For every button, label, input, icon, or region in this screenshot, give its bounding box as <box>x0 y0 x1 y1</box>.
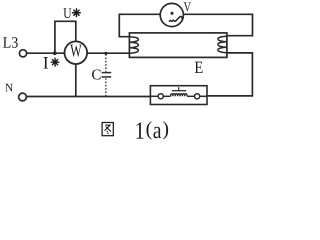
lamp left filament coil <box>129 37 138 54</box>
wire top loop right from voltmeter <box>183 14 252 35</box>
ballast left terminal circle <box>158 94 163 99</box>
wattmeter W letter <box>70 45 82 57</box>
capacitor C (dashed branch) <box>102 54 112 95</box>
asterisk of U* <box>73 9 81 17</box>
wire coil to right circle <box>187 95 194 97</box>
lamp tube E rectangle <box>129 33 227 58</box>
wire U* voltage tap loop <box>55 21 76 53</box>
wire L3 main horizontal <box>27 52 130 54</box>
terminal N <box>19 93 27 101</box>
label V <box>184 2 191 11</box>
label L3 <box>3 37 18 48</box>
label U <box>63 8 71 18</box>
ballast right terminal circle <box>195 94 200 99</box>
label I <box>43 57 48 68</box>
ballast core line <box>172 90 186 92</box>
wire circle to coil <box>163 95 170 97</box>
terminal L3 <box>19 50 26 57</box>
caption glyph 图 <box>102 123 113 136</box>
asterisk of I* <box>51 58 59 66</box>
ballast/starter box <box>150 86 207 105</box>
wire inside box right <box>200 95 207 97</box>
lamp right filament coil <box>218 36 227 53</box>
wattmeter W circle <box>65 41 88 64</box>
node junction C tap <box>104 52 107 55</box>
wire N horizontal <box>26 96 150 98</box>
ballast inductor coil <box>171 94 188 97</box>
voltmeter needle squiggle <box>169 16 182 21</box>
wire lamp right to starter <box>207 53 252 96</box>
label C <box>92 69 101 79</box>
voltmeter center dot <box>170 12 173 15</box>
node junction on main wire (U* tap) <box>53 51 57 55</box>
wire inside box left <box>151 95 158 97</box>
voltmeter V circle <box>160 3 183 26</box>
wire wattmeter bottom to N <box>75 64 77 97</box>
label N <box>5 84 13 92</box>
caption text 1 (a) <box>136 122 143 138</box>
ballast core tick <box>178 87 180 91</box>
label E <box>195 62 203 73</box>
wire top loop left to voltmeter <box>119 14 160 36</box>
